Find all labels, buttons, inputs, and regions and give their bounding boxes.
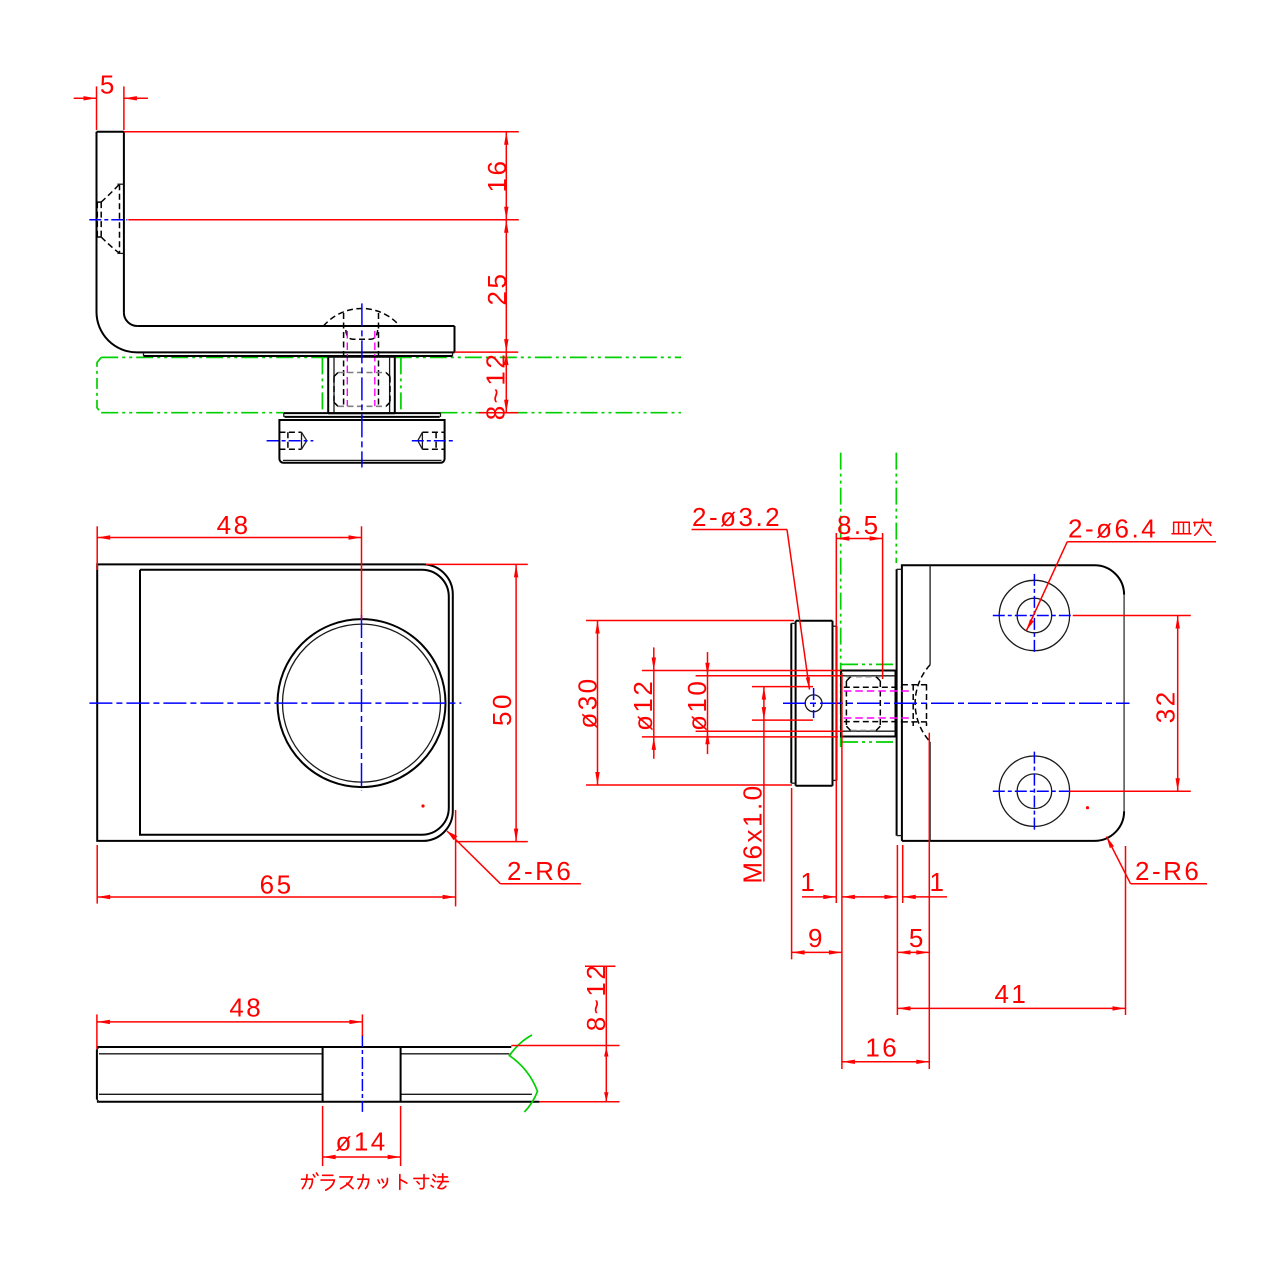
vertical centerline of screw <box>361 303 363 467</box>
dimension 48 <box>97 510 361 620</box>
ra <box>321 1175 334 1190</box>
label glass-cut-size (katakana drawn as strokes) <box>302 1173 449 1190</box>
label 2-o6.4 countersunk with leader <box>1027 514 1217 631</box>
su <box>340 1177 353 1189</box>
svg-text:5: 5 <box>909 923 926 953</box>
dimension o14 <box>323 1106 401 1166</box>
svg-text:50: 50 <box>487 692 517 726</box>
label M6x1.0 <box>738 687 814 884</box>
glass panel (phantom) <box>97 357 681 412</box>
hex nut (hidden) <box>846 677 880 731</box>
break line (green) <box>509 1035 537 1112</box>
svg-text:2-ø3.2: 2-ø3.2 <box>692 502 782 532</box>
disc (o30 boss) side view <box>791 621 836 786</box>
dimension 1 right <box>897 845 947 1015</box>
centerline of countersunk hole <box>89 219 127 221</box>
spacer sleeve side view <box>841 671 895 737</box>
ana <box>1194 519 1211 535</box>
svg-text:65: 65 <box>260 870 294 900</box>
washer under glass <box>284 413 441 417</box>
dimension 5 <box>74 70 148 131</box>
svg-text:2-R6: 2-R6 <box>1135 856 1201 886</box>
dimension 65 <box>97 810 455 906</box>
svg-text:8.5: 8.5 <box>837 510 881 540</box>
dimension 9 <box>792 788 842 959</box>
L-bracket body <box>97 132 455 356</box>
button head screw dome (hidden) <box>324 308 400 339</box>
hole centerline <box>361 1035 363 1112</box>
plate outline outer <box>97 564 453 841</box>
svg-text:ø30: ø30 <box>573 676 603 728</box>
svg-text:41: 41 <box>994 979 1028 1009</box>
leader 2-R6 right <box>1107 837 1208 887</box>
hidden clearance hole through plate <box>902 685 930 722</box>
svg-text:1: 1 <box>800 867 817 897</box>
glass hole circle outer <box>278 619 446 787</box>
glass panel outline <box>97 1047 540 1102</box>
leader 2-R6 <box>447 831 581 886</box>
vertical centerline <box>361 615 363 790</box>
svg-text:8~12: 8~12 <box>581 963 611 1032</box>
hidden washer under head <box>913 685 926 727</box>
dimension 1 left <box>800 673 897 1069</box>
svg-text:9: 9 <box>808 923 825 953</box>
main horizontal centerline <box>783 702 1130 704</box>
hidden screw head dome behind plate <box>915 665 930 742</box>
dimension 8~12 thickness <box>511 963 619 1102</box>
hex nut inside spacer (hidden) <box>334 373 390 407</box>
wall plate outline <box>902 565 1124 841</box>
svg-text:ø12: ø12 <box>628 679 658 731</box>
dimension 41 <box>897 846 1125 1015</box>
right set screw hole <box>412 432 455 449</box>
red speck artifact <box>421 804 424 807</box>
to <box>400 1175 407 1190</box>
small tsu <box>378 1178 387 1187</box>
svg-text:M6x1.0: M6x1.0 <box>738 783 768 883</box>
screw thread (hidden) <box>344 313 379 406</box>
svg-text:32: 32 <box>1151 689 1181 723</box>
label 2-o3.2 with leader <box>692 502 810 690</box>
small hole o3.2 in disc <box>805 688 822 718</box>
sara <box>1172 522 1191 533</box>
dimension 48 <box>97 993 363 1050</box>
svg-text:5: 5 <box>100 70 117 100</box>
glass hole circle inner <box>283 624 441 782</box>
ga <box>302 1173 318 1189</box>
svg-text:48: 48 <box>229 993 263 1023</box>
dimension 5 <box>897 733 929 1069</box>
countersunk hole in vertical leg (hidden) <box>97 184 123 253</box>
svg-text:2-ø6.4: 2-ø6.4 <box>1068 514 1158 544</box>
svg-text:16: 16 <box>865 1033 899 1063</box>
dimension chain 16 / 25 / 8~12 <box>124 132 519 421</box>
svg-text:ø14: ø14 <box>335 1127 387 1157</box>
horizontal centerline <box>89 702 461 704</box>
svg-text:25: 25 <box>482 272 512 306</box>
glass hole o14 <box>323 1047 401 1102</box>
glass-side face line of plate <box>897 569 902 835</box>
stud thread minor dia (magenta) <box>844 691 912 718</box>
glass hole edges (phantom) <box>841 664 896 742</box>
glass panel (phantom verticals) <box>841 453 897 747</box>
dimension 32 <box>1069 616 1190 792</box>
ka <box>358 1175 369 1189</box>
plate face inner outline <box>140 570 449 835</box>
hou <box>431 1174 448 1189</box>
dimension o30 <box>573 621 795 786</box>
countersunk hole upper <box>993 574 1073 654</box>
dimension o12 <box>628 647 841 758</box>
sun <box>414 1175 429 1189</box>
base disc <box>279 420 444 463</box>
svg-text:16: 16 <box>482 159 512 193</box>
dimension o10 <box>682 652 841 754</box>
glass hole edge lines <box>322 357 401 412</box>
svg-text:ø10: ø10 <box>682 679 712 731</box>
screw thread minor dia (magenta) <box>347 331 375 406</box>
bend tangent line on plate <box>929 565 931 841</box>
spacer sleeve through glass <box>328 357 395 413</box>
left set screw hole <box>267 432 314 449</box>
svg-text:2-R6: 2-R6 <box>507 856 573 886</box>
countersunk hole lower <box>993 752 1073 831</box>
stud thread (hidden) <box>844 687 902 721</box>
dimension 16 <box>842 1033 929 1065</box>
svg-text:48: 48 <box>217 510 251 540</box>
dimension 50 <box>426 564 528 841</box>
svg-text:8~12: 8~12 <box>481 352 511 421</box>
red speck artifact <box>1086 806 1089 809</box>
svg-text:1: 1 <box>930 867 947 897</box>
dimension 8.5 <box>836 510 882 903</box>
